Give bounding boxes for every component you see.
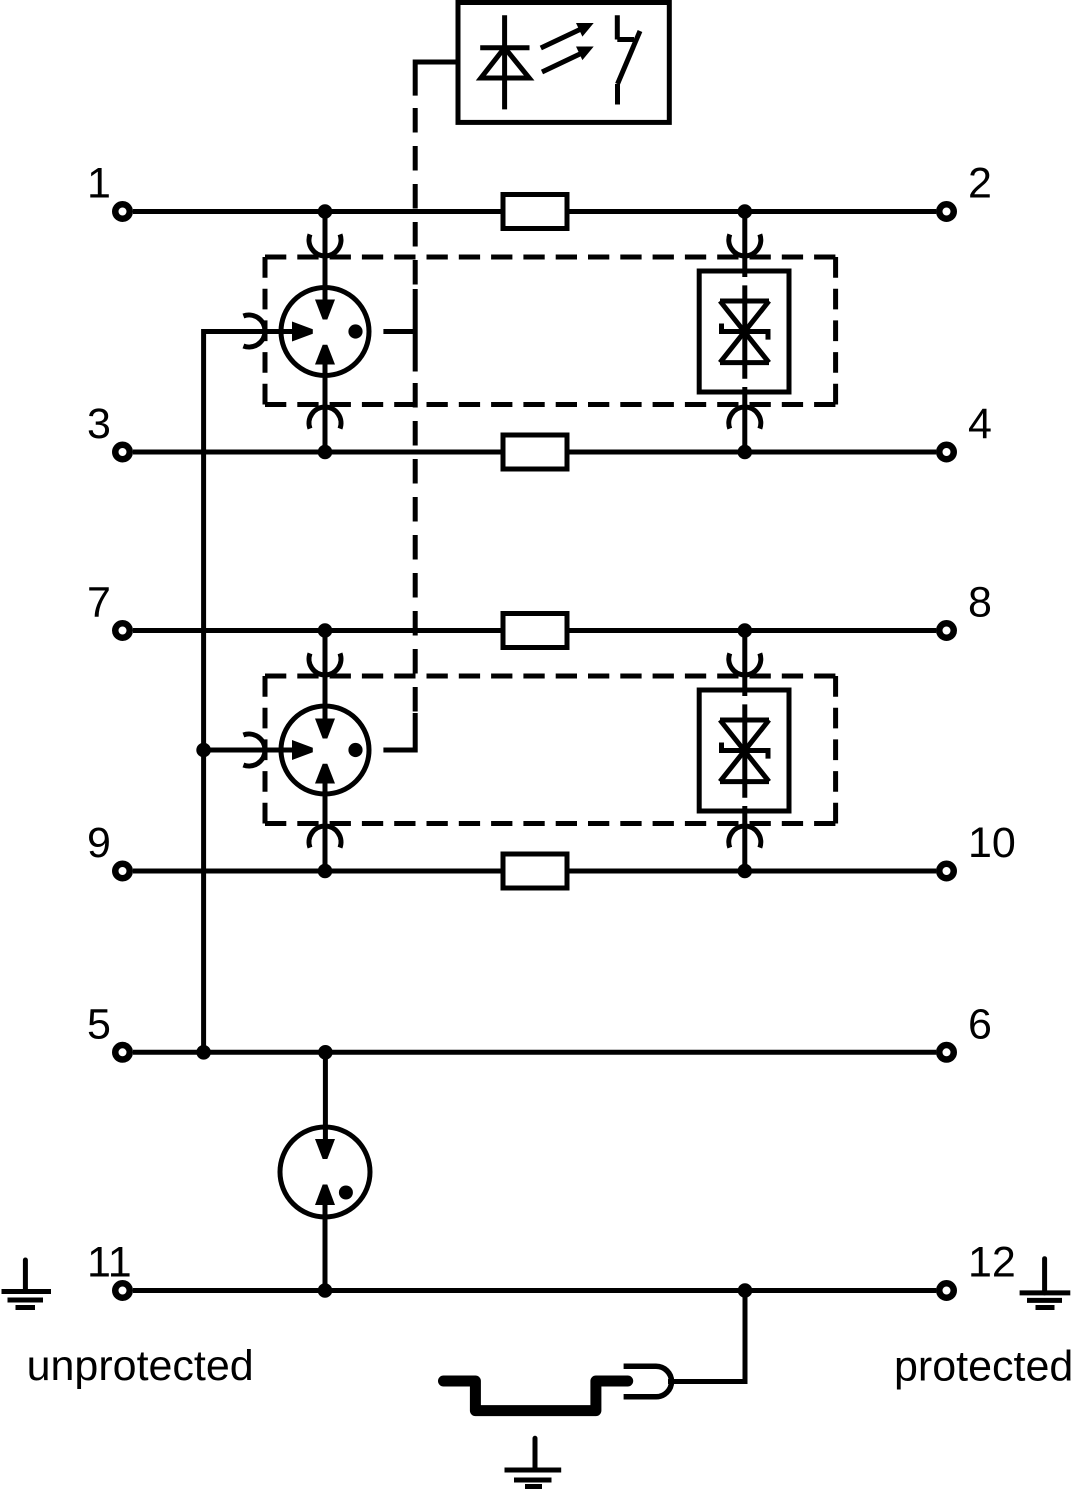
remote contact bottom terminal (615, 84, 620, 105)
wire GDT2 top lead (323, 631, 328, 726)
terminal 11 (115, 1283, 130, 1298)
LED light arrowhead upper (576, 23, 594, 37)
svg-text:10: 10 (968, 819, 1016, 867)
junction line11/earth drop (738, 1283, 753, 1298)
terminal 4 (939, 445, 954, 460)
LED light arrowhead lower (576, 47, 594, 61)
ground symbol left (terminal 11 side) (2, 1260, 52, 1308)
TVS1 internal vertical lead (742, 271, 747, 392)
suppressor diode TVS2 (699, 653, 789, 847)
TVS2 zener Z-bar (722, 743, 769, 759)
GDT3 bottom electrode arrow (315, 1185, 335, 1206)
wire monitor solid segment at GDT1 stub (413, 289, 418, 372)
svg-text:9: 9 (87, 819, 111, 867)
disconnect contact above GDT1 (309, 234, 341, 256)
junction line1/GDT1 (318, 204, 333, 219)
terminal 12 (939, 1283, 954, 1298)
TVS1 bottom bar (720, 360, 769, 365)
GDT1 bottom electrode arrow (315, 345, 335, 365)
svg-text:3: 3 (87, 400, 111, 448)
disconnect contact left of GDT1 (243, 315, 265, 347)
wire GDT1 bottom lead (323, 358, 328, 452)
TVS1 top bar (720, 299, 769, 304)
terminal 8 (939, 623, 954, 638)
wire left common rail from line 5 up to GDT1 left lead (204, 332, 300, 1053)
gas discharge tube GDT2 (3-electrode) (281, 706, 369, 794)
svg-text:6: 6 (968, 1000, 992, 1048)
GDT3 top electrode arrow (315, 1139, 335, 1159)
wire monitor dashed line (413, 108, 418, 712)
wire GDT2 bottom lead (323, 777, 328, 871)
indicator unit box (458, 3, 669, 123)
svg-text:1: 1 (87, 160, 111, 208)
resistor R3 on line 7 (503, 614, 567, 648)
wire GDT3 top lead from line 5 (323, 1052, 328, 1145)
disconnect contact left of GDT2 (243, 734, 265, 766)
GDT2 bottom electrode arrow (315, 764, 335, 784)
junction line7/GDT2 (318, 623, 333, 638)
resistor R4 on line 9 (503, 854, 567, 888)
terminal 3 (115, 445, 130, 460)
terminal 9 (115, 864, 130, 879)
suppressor diode TVS1 (699, 234, 789, 428)
gas discharge tube GDT1 (3-electrode) (281, 288, 369, 376)
wire GDT1 top lead (323, 212, 328, 307)
GDT2 top electrode arrow (315, 719, 335, 739)
GDT1 top electrode arrow (315, 300, 335, 320)
junction line9/GDT2 (318, 864, 333, 879)
svg-text:7: 7 (87, 579, 111, 627)
wire from line 11 node down to rail clip (668, 1291, 745, 1382)
TVS1 zener Z-bar (722, 324, 769, 340)
terminal 10 (939, 864, 954, 879)
disconnect contact below GDT2 (309, 826, 341, 848)
LED cathode bar (480, 45, 529, 50)
terminal 1 (115, 204, 130, 219)
DIN rail symbol (444, 1381, 628, 1411)
svg-text:4: 4 (968, 400, 992, 448)
svg-text:8: 8 (968, 579, 992, 627)
TVS2 bottom bar (720, 779, 769, 784)
module dashed box 1 (265, 257, 836, 405)
disconnect contact below GDT1 (309, 407, 341, 429)
disconnect contact above TVS1 (729, 234, 761, 256)
junction line1/TVS1 (738, 204, 753, 219)
wire TVS1 top lead (742, 212, 747, 272)
GDT2 dot electrode (348, 743, 362, 757)
disconnect contact below TVS1 (729, 407, 761, 429)
junction line3/GDT1 (318, 445, 333, 460)
svg-text:12: 12 (968, 1239, 1016, 1287)
resistor R2 on line 3 (503, 435, 567, 469)
GDT1 left electrode arrow (292, 322, 313, 342)
gas discharge tube GDT3 (2-electrode) (280, 1127, 370, 1217)
junction line5/left rail (196, 1045, 211, 1060)
wire line 1 (terminal 1 to terminal 2) (133, 209, 936, 214)
disconnect contact above GDT2 (309, 653, 341, 675)
svg-text:unprotected: unprotected (27, 1342, 254, 1390)
GDT3 dot electrode (339, 1186, 353, 1200)
junction line3/TVS1 (738, 445, 753, 460)
TVS2 internal vertical lead (742, 690, 747, 811)
terminal 6 (939, 1045, 954, 1060)
wire line 11 (terminal 11 to terminal 12) (133, 1288, 936, 1293)
wire GDT2 left lead (204, 748, 300, 753)
LED light arrow shafts (541, 29, 582, 72)
TVS2 top bar (720, 718, 769, 723)
svg-text:protected: protected (894, 1343, 1073, 1391)
wire monitor elbow to GDT2 stub (383, 713, 415, 750)
junction line11/GDT3 (318, 1283, 333, 1298)
junction line7/TVS2 (738, 623, 753, 638)
junction GDT2 left lead / left rail (196, 743, 211, 758)
wire TVS1 bottom lead (742, 392, 747, 452)
wire line 5 (terminal 5 to terminal 6) (133, 1050, 936, 1055)
ground symbol bottom (rail earth) (505, 1438, 562, 1486)
wire GDT3 bottom lead to line 11 (323, 1198, 328, 1291)
svg-text:5: 5 (87, 1000, 111, 1048)
terminal 2 (939, 204, 954, 219)
wire TVS2 bottom lead (742, 811, 747, 871)
wire TVS2 top lead (742, 631, 747, 691)
module dashed box 2 (265, 676, 836, 824)
GDT1 dot electrode (348, 324, 362, 338)
wire line 7 (terminal 7 to terminal 8) (133, 628, 936, 633)
wire GDT1 monitor stub (383, 329, 415, 334)
terminal 7 (115, 623, 130, 638)
remote contact top terminal (617, 15, 634, 39)
wire line 3 (terminal 3 to terminal 4) (133, 450, 936, 455)
TVS2 diode X diagonals (720, 720, 769, 782)
GDT2 left electrode arrow (292, 740, 313, 760)
resistor R1 on line 1 (503, 195, 567, 229)
ground symbol right (terminal 12 side) (1020, 1259, 1071, 1308)
junction line9/TVS2 (738, 864, 753, 879)
disconnect contact below TVS2 (729, 826, 761, 848)
svg-text:2: 2 (968, 160, 992, 208)
disconnect contact above TVS2 (729, 653, 761, 675)
TVS1 diode X diagonals (720, 301, 769, 363)
remote contact blade (618, 31, 641, 84)
svg-text:11: 11 (87, 1239, 132, 1287)
wire indicator stub from box (415, 62, 458, 96)
rail clip contact (624, 1366, 672, 1397)
junction line5/GDT3 (318, 1045, 333, 1060)
LED cathode lead (502, 15, 507, 109)
wire line 9 (terminal 9 to terminal 10) (133, 869, 936, 874)
LED triangle (481, 48, 529, 78)
terminal 5 (115, 1045, 130, 1060)
